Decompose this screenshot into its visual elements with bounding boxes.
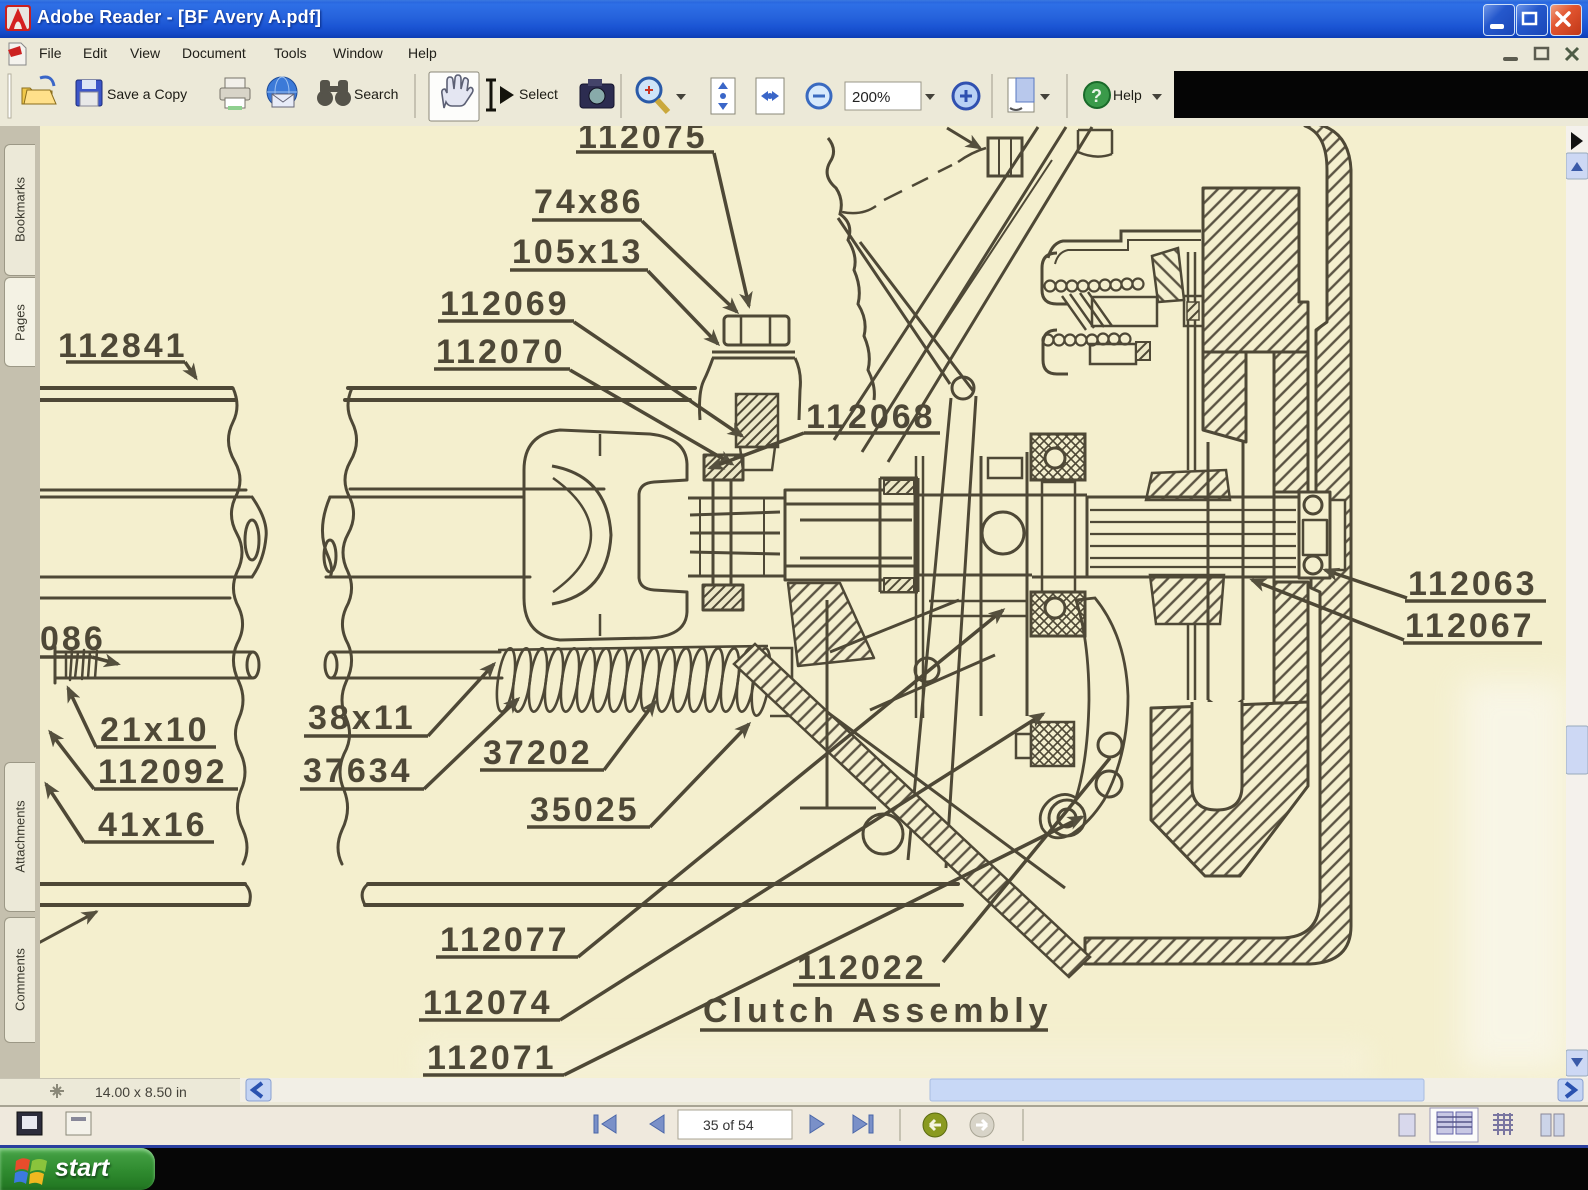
clutch disc verticals [1188,252,1195,700]
flywheel left lobe [1203,352,1246,442]
disc hub [1184,296,1208,326]
notch in pressure plate [1192,702,1242,810]
diagonal hatched strip [734,644,1090,977]
lower plate [1090,344,1136,364]
coil row 2 [1043,334,1131,346]
spider bearing cap bottom [703,585,743,610]
zoom tool + arrow [637,78,668,112]
rail top left segment [40,388,236,400]
hidden-toolbar expand arrow [1571,132,1583,150]
rail top right segment [345,388,695,400]
flywheel upper [1203,188,1308,352]
bottom rail left [40,884,248,905]
tube bottom left [40,489,246,492]
stud spring washer [736,394,778,447]
svg-text:37202: 37202 [483,734,593,772]
page box [678,1110,792,1139]
tube bottom right [350,488,604,491]
guide pins [1062,292,1112,330]
lower rod right [330,652,502,678]
fork upper arm from torn edge [838,218,974,392]
spring cup [1092,297,1157,326]
shaft right broken cap [322,497,331,577]
spider bearing cap top [704,455,743,480]
svg-text:Select: Select [519,86,558,102]
layout icon [1008,78,1034,112]
pedal arm diagonals [834,127,1092,462]
child window controls [1498,44,1586,66]
svg-text:112070: 112070 [436,333,566,371]
select: I-beam + cursor [486,80,496,110]
svg-text:41x16: 41x16 [98,806,208,844]
break line left [228,388,247,864]
svg-text:105x13: 105x13 [512,233,643,271]
svg-text:086: 086 [40,620,106,658]
fork plate behind [981,452,1027,716]
snapshot camera [580,79,614,108]
lower rod left + pin [55,652,252,678]
yoke cup mouth [552,466,611,604]
next view gray [970,1113,994,1137]
open folder icon [22,77,56,104]
next [810,1115,824,1133]
bell crank lever [1040,598,1128,838]
upper bracket [1048,231,1201,258]
bracket plate verticals [916,456,923,718]
last page [853,1115,873,1133]
svg-text:112068: 112068 [806,398,936,436]
tube lower line left [40,597,230,600]
zoom in [953,83,979,109]
windows flag [14,1153,50,1187]
printer [220,78,250,110]
svg-text:Clutch Assembly: Clutch Assembly [703,992,1053,1030]
svg-text:200%: 200% [852,89,890,106]
support plate [827,600,995,712]
shaft left extension [1032,495,1087,577]
arrow into rail bottom-left [33,912,96,946]
thumb [1566,726,1588,774]
pedal top bracket [1078,130,1112,157]
svg-text:112063: 112063 [1408,565,1538,603]
scroll down button [1566,1050,1588,1076]
slot verticals [1208,442,1274,700]
svg-text:Save a Copy: Save a Copy [107,86,187,102]
yoke outer [524,430,687,640]
svg-text:38x11: 38x11 [308,699,416,737]
spider trunnion vertical [713,480,731,585]
prev view green [923,1113,947,1137]
gear above shaft [1146,470,1230,500]
svg-text:74x86: 74x86 [534,183,644,221]
bottom rail right [365,884,962,905]
triangle support [800,712,1065,888]
throwout bearing top [1031,434,1085,480]
sleeve between bearings [1042,482,1075,592]
svg-text:14.00 x 8.50 in: 14.00 x 8.50 in [95,1084,187,1100]
svg-text:112067: 112067 [1405,607,1535,645]
prev [650,1115,664,1133]
slip sleeve [785,490,915,580]
svg-text:35025: 35025 [530,791,640,829]
svg-text:112069: 112069 [440,285,570,323]
torn edge [827,138,874,400]
help sphere [1084,82,1110,108]
flywheel column [1274,352,1308,492]
gear below shaft [1150,575,1224,624]
housing front wall wedge [788,583,874,666]
shaft into clutch [918,495,1032,575]
pin 21x10 scribble [66,650,97,680]
svg-text:35 of 54: 35 of 54 [703,1117,754,1133]
shaft left cylinder [40,497,252,577]
spring end collar [770,648,792,716]
svg-text:112092: 112092 [98,753,228,791]
cover shell [1085,123,1351,964]
first page [594,1115,616,1133]
main shaft bearing [1299,492,1330,578]
svg-text:112071: 112071 [427,1039,557,1077]
app icon [5,5,33,33]
svg-text:21x10: 21x10 [100,711,210,749]
binoculars [317,80,351,106]
svg-text:Search: Search [354,86,398,102]
hand tool pressed [429,72,479,121]
menu pdf icon [6,42,30,66]
shaft left end cap [252,497,266,577]
fork pivot [952,377,974,399]
bearing seat in cover [1316,500,1345,570]
zoom out [807,84,831,108]
scroll up button [1566,153,1588,179]
break line right [338,388,357,864]
shaft right cylinder [326,497,530,577]
C retainers [1042,253,1068,304]
bracket arm lines [929,601,1028,616]
wedge opposite hatch [1152,248,1184,302]
layout buttons right [1394,1111,1420,1139]
sleeve flange hatch [884,480,914,494]
pressure plate lower blob [1151,702,1308,876]
svg-text:112074: 112074 [423,984,553,1022]
left two mini icons [17,1112,42,1135]
adjuster block [1031,722,1074,766]
drag groove [8,74,11,118]
fork arm down [908,396,976,868]
save a copy floppy [76,80,102,106]
email globe [267,77,297,107]
splined shaft [1087,497,1299,577]
bolt B upper right [988,138,1022,176]
svg-text:112077: 112077 [440,921,570,959]
svg-text:37634: 37634 [303,752,413,790]
spider fingers [688,498,785,576]
svg-text:Help: Help [1113,87,1142,103]
coil row 1 [1045,279,1144,292]
fit page icons [711,78,735,114]
svg-text:?: ? [1091,86,1102,106]
svg-text:112841: 112841 [58,327,188,365]
throwout bearing bottom [1031,592,1085,636]
200% box [845,82,921,110]
svg-text:112022: 112022 [797,949,927,987]
